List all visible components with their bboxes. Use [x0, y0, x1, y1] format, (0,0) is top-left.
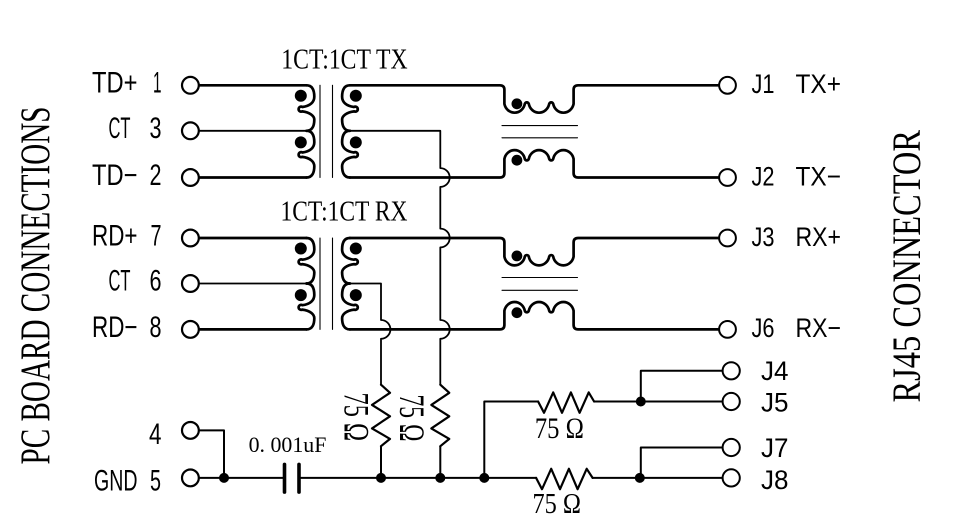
- svg-text:GND: GND: [94, 465, 138, 498]
- svg-text:3: 3: [150, 112, 162, 145]
- svg-text:J4: J4: [761, 356, 789, 386]
- svg-text:J2: J2: [752, 161, 775, 191]
- svg-text:1CT:1CT TX: 1CT:1CT TX: [281, 43, 407, 75]
- svg-text:7: 7: [151, 219, 162, 252]
- svg-text:J1: J1: [752, 69, 775, 99]
- svg-text:TD+: TD+: [92, 67, 138, 100]
- svg-text:0. 001uF: 0. 001uF: [249, 432, 327, 457]
- svg-text:RD−: RD−: [92, 311, 138, 344]
- svg-text:2: 2: [150, 159, 162, 192]
- svg-text:RX−: RX−: [796, 313, 842, 343]
- svg-text:1: 1: [153, 67, 162, 100]
- svg-text:TX−: TX−: [796, 161, 842, 191]
- svg-text:RX+: RX+: [796, 222, 842, 252]
- svg-text:75 Ω: 75 Ω: [533, 489, 582, 520]
- svg-text:5: 5: [150, 465, 161, 498]
- svg-text:J7: J7: [761, 433, 789, 463]
- svg-text:CT: CT: [109, 265, 131, 298]
- svg-text:RD+: RD+: [92, 219, 138, 252]
- svg-text:RJ45 CONNECTOR: RJ45 CONNECTOR: [884, 130, 929, 403]
- svg-text:J5: J5: [761, 387, 789, 417]
- svg-text:1CT:1CT RX: 1CT:1CT RX: [281, 196, 408, 228]
- svg-text:6: 6: [150, 265, 162, 298]
- svg-text:8: 8: [150, 311, 162, 344]
- svg-text:J6: J6: [752, 313, 775, 343]
- svg-text:TD−: TD−: [92, 159, 138, 192]
- svg-text:J8: J8: [761, 465, 789, 495]
- svg-text:75 Ω: 75 Ω: [392, 395, 432, 442]
- svg-text:75 Ω: 75 Ω: [535, 412, 584, 445]
- svg-text:CT: CT: [109, 112, 131, 145]
- svg-text:TX+: TX+: [796, 69, 842, 99]
- svg-text:75 Ω: 75 Ω: [337, 393, 377, 442]
- svg-text:PC BOARD CONNECTIONS: PC BOARD CONNECTIONS: [13, 107, 60, 465]
- svg-text:4: 4: [149, 418, 162, 451]
- svg-text:J3: J3: [752, 222, 775, 252]
